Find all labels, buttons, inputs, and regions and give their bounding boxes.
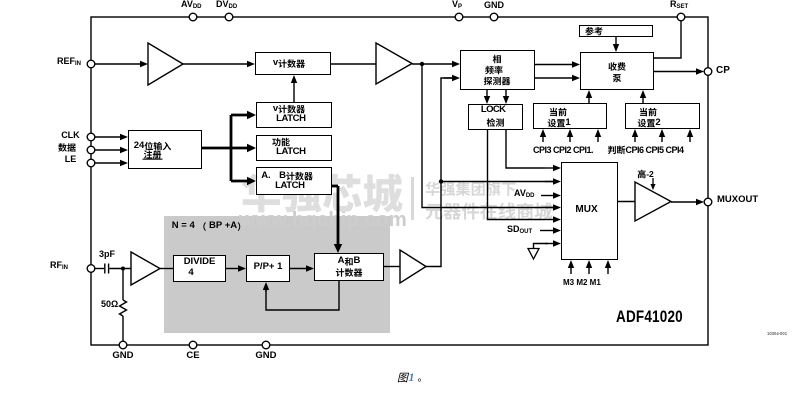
wire M3 select into MUX: [570, 267, 572, 274]
current setting 2 box: [625, 103, 700, 129]
wire CPI5 select into current setting 2: [661, 136, 663, 142]
label current setting 2: [640, 108, 657, 116]
label AVDD pin: [181, 0, 202, 12]
label RFIN pin: [50, 260, 68, 273]
label VP pin: [452, 0, 462, 12]
wire buffer to R counter: [183, 63, 248, 65]
ground symbol: [528, 249, 539, 260]
label DVDD pin: [216, 0, 237, 12]
pin MUXOUT: [704, 198, 712, 206]
wire input register data bus: [202, 147, 231, 150]
label charge pump: [608, 62, 625, 70]
pin DVDD: [225, 13, 233, 21]
label MUX: [575, 204, 597, 216]
node R-counter-out junction: [420, 62, 424, 66]
label GND bottom mid pin: [255, 351, 276, 362]
wire divide4 to prescaler: [226, 268, 239, 270]
label REFIN pin: [57, 56, 81, 69]
capacitor C1 3pF: [104, 264, 106, 274]
label figure number code: [767, 332, 787, 337]
label CLK pin: [61, 130, 80, 140]
wire output buffer to MUXOUT pin: [671, 201, 697, 203]
wire SDOUT to MUX: [540, 230, 554, 232]
resistor R1 50 ohm: [122, 269, 124, 301]
node RF input junction: [121, 267, 125, 271]
current setting 1 box: [533, 103, 607, 129]
wire prescaler to AB counter: [290, 268, 307, 270]
wire PFD to lock detect right: [505, 90, 507, 97]
wire CLK to input register: [95, 136, 121, 138]
label RSET pin: [670, 0, 688, 12]
label CE pin: [186, 351, 199, 362]
wire R counter output down to MUX: [422, 64, 553, 208]
label CPI3 CPI2 CPI1 select bits: [533, 145, 593, 155]
AB counter box: [314, 253, 384, 281]
wire DATA to input register: [95, 149, 121, 151]
wire AB latch to AB counter: [332, 185, 338, 188]
wire lock detect digital out to MUX: [506, 130, 545, 168]
wire A2 to PFD upper input: [412, 63, 453, 65]
label register line2: [144, 150, 161, 159]
label R counter latch: [273, 104, 278, 114]
wire current setting 2 to charge pump: [642, 97, 644, 103]
wire current setting 1 to charge pump: [588, 97, 590, 103]
MUX box: [561, 162, 618, 260]
wire LE to input register: [95, 162, 121, 164]
wire lock detect analog out to MUX: [488, 130, 546, 220]
label CPI6 CPI5 CPI4 select bits: [626, 145, 684, 155]
reference box: [579, 25, 653, 37]
wire PFD up output to charge pump: [535, 64, 573, 66]
charge pump box: [580, 52, 654, 90]
pin REFIN: [87, 60, 95, 68]
wire reference box to charge pump: [615, 37, 617, 45]
pin AVDD: [189, 13, 197, 21]
label R1 value 50ohm: [101, 299, 118, 309]
wire bus to AB counter latch: [231, 180, 248, 183]
label AB counter: [338, 256, 345, 266]
watermark hqchip logo text: [242, 173, 403, 212]
wire R counter to buffer A2: [331, 63, 377, 65]
wire R counter latch to R counter: [293, 82, 295, 102]
phase frequency detector box: [460, 50, 535, 90]
pin GND bottom mid: [262, 341, 270, 349]
buffer amp A1 (REF input): [148, 43, 183, 85]
label function latch: [276, 147, 305, 158]
label ADF41020 part number: [616, 307, 683, 326]
label C1 value 3pF: [99, 249, 115, 259]
label R counter: [273, 58, 278, 68]
wire CPI2 select into current setting 1: [569, 136, 571, 142]
buffer amp A5 (MUXOUT driver): [635, 182, 671, 221]
pin CLK: [87, 133, 95, 141]
wire CPI3 select into current setting 1: [597, 136, 599, 142]
label M3 M2 M1 select bits: [563, 278, 601, 287]
wire tri-state label arrow into output buffer: [652, 178, 654, 185]
wire charge pump output to CP pin: [654, 71, 697, 73]
label AB counter latch: [261, 171, 271, 181]
label reference: [585, 27, 602, 36]
label SDOUT mux input: [507, 224, 532, 237]
caption figure 1: [409, 371, 415, 383]
label AVDD mux input: [514, 188, 535, 201]
wire PFD down output to charge pump: [535, 77, 573, 79]
R counter box: [255, 52, 331, 75]
label 24-bit input register: [134, 141, 145, 151]
wire cap to RF buffer: [109, 268, 131, 270]
wire ground to MUX: [534, 244, 549, 249]
wire REFIN to input buffer: [95, 63, 141, 65]
wire RSET to charge pump: [654, 21, 681, 58]
pin VP: [455, 13, 463, 21]
wire N divider feedback to PFD lower input: [426, 78, 452, 267]
label GND top pin: [484, 0, 504, 10]
wire bus to R counter latch: [231, 114, 248, 117]
wire RFIN to coupling cap: [95, 268, 104, 270]
R counter latch box: [256, 102, 332, 128]
divide by 4 box: [173, 255, 226, 282]
pin CP: [704, 68, 712, 76]
label prescaler: [254, 262, 283, 273]
pin CE: [189, 341, 197, 349]
wire PFD to lock detect left: [486, 90, 488, 97]
wire M1 select into MUX: [607, 267, 609, 274]
buffer amp A4 (N divider output): [400, 250, 426, 283]
gray N divider region: [164, 216, 390, 333]
prescaler P/P+1 box: [246, 255, 290, 282]
label LE pin: [65, 154, 77, 164]
label PFD: [493, 55, 501, 63]
wire M2 select into MUX: [588, 267, 590, 274]
watermark hqchip group line1: [425, 181, 515, 196]
watermark hqchip group line2: [426, 202, 553, 219]
label lock detect: [481, 105, 506, 116]
pin RFIN: [87, 265, 95, 273]
label divide by 4: [184, 257, 216, 268]
wire AVDD to MUX: [541, 195, 554, 197]
wire AB counter modulus feedback to prescaler: [266, 281, 339, 310]
watermark separator bar: [411, 177, 414, 220]
label MUXOUT pin: [717, 195, 758, 206]
pin RSET: [677, 13, 685, 21]
label GND bottom left pin: [112, 351, 133, 362]
wire bus to function latch: [231, 147, 248, 150]
AB counter latch box: [256, 167, 332, 195]
wire CPI4 select into current setting 2: [634, 136, 636, 142]
outer boundary of ADF41020 chip: [91, 17, 708, 345]
lock detect box: [468, 104, 523, 130]
watermark url: [239, 210, 407, 230]
24-bit input register box: [128, 130, 202, 169]
function latch box: [256, 135, 332, 161]
buffer amp A2 (R counter output): [376, 43, 412, 84]
wire N divider output to MUX: [441, 181, 553, 183]
wire CPI6 select into current setting 2: [689, 136, 691, 142]
buffer amp A3 (RF input): [131, 252, 160, 285]
label N=4(BP+A) equation: [172, 221, 198, 231]
pin GND bottom left: [119, 341, 127, 349]
wire RF buffer to divide-by-4: [160, 268, 173, 270]
wire MUX to output buffer: [618, 201, 636, 203]
wire CPI1 select into current setting 1: [542, 136, 544, 142]
label CP pin: [716, 65, 730, 77]
wire AB counter to buffer A4: [384, 266, 400, 268]
pin GND top: [490, 13, 498, 21]
label current setting 1: [550, 108, 567, 116]
node N-divider junction: [439, 179, 443, 183]
pin DATA: [87, 146, 95, 154]
pin LE: [87, 159, 95, 167]
